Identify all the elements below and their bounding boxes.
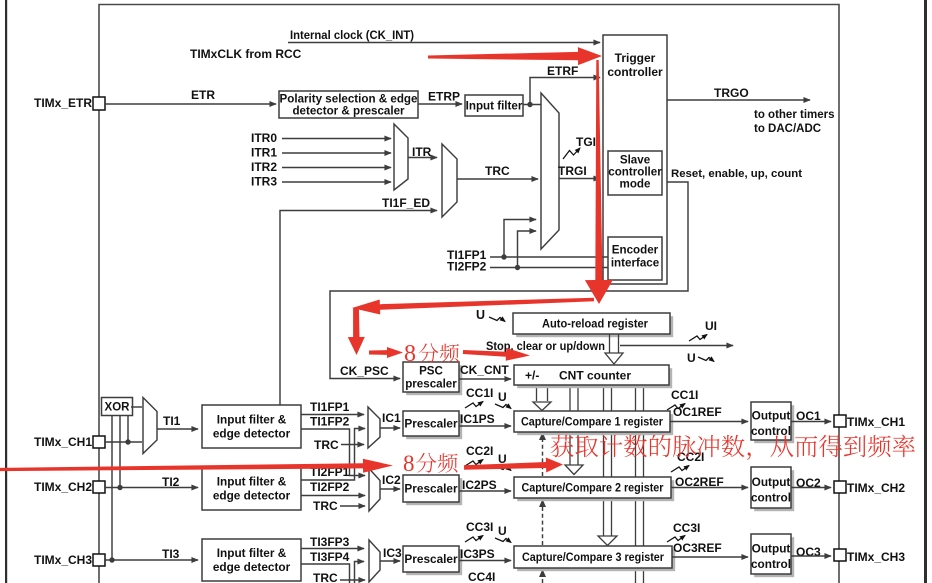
svg-text:TRC: TRC [313,571,338,583]
wire ETRP [418,103,462,105]
box input filter [465,95,523,116]
wire TRC ch1 [341,444,364,446]
svg-text:ITR2: ITR2 [251,160,277,174]
label TI1 [163,414,181,428]
red arrow down psc [348,308,365,355]
svg-text:edge detector: edge detector [213,427,291,441]
label TIMx_CH2 right [847,481,905,495]
svg-text:Output: Output [752,475,791,489]
page left border [5,0,7,583]
svg-text:Encoder: Encoder [612,244,659,257]
box input filter edge detector 3 [202,539,301,581]
label ITR3 [251,175,277,189]
svg-text:Capture/Compare 1 register: Capture/Compare 1 register [521,417,663,429]
label CC2I right [677,450,704,464]
box output control 3 [751,534,794,577]
wire xor line1 [111,415,113,560]
box capture compare 3 [514,546,675,571]
label TRGI [558,164,587,178]
label to DAC/ADC [754,123,821,135]
svg-text:IC3PS: IC3PS [460,547,495,561]
label IC1PS [460,412,495,426]
red text 8fenpin 2 [403,451,458,476]
label OC1 [796,409,821,423]
wire ETRF [530,78,600,105]
wire ITR1 [282,152,391,154]
label ITR1 [251,146,277,160]
label UI [705,319,717,333]
squiggle UI [689,335,707,342]
svg-text:XOR: XOR [105,402,131,414]
mux IC1 [368,407,380,448]
svg-text:CC4I: CC4I [468,570,495,583]
squiggle U right [698,357,714,362]
wire xor out [131,406,142,408]
wire TI2FP2 [301,495,365,497]
wire OC2 [791,487,831,489]
squiggle TGI [563,148,580,159]
wire xor line3 [127,415,129,442]
svg-text:Trigger: Trigger [615,51,656,65]
label TGI [576,135,596,149]
svg-text:TRC: TRC [313,499,338,513]
svg-text:CC3I: CC3I [673,521,700,535]
red text 8fenpin 1 [404,341,459,367]
label TI2FP2 trig [447,260,487,274]
red arrow left to psc [352,298,594,315]
label IC3PS [460,547,495,561]
svg-text:PSC: PSC [419,365,443,378]
wire TI2FP1 up [301,429,365,481]
bus pair1 CNT to CC2 [565,385,583,475]
label IC1 [382,411,401,425]
wire CH3 pin [105,559,198,561]
svg-text:TI2FP2: TI2FP2 [447,260,487,274]
wire CK_CNT [459,378,511,380]
pin TIMx_CH2 right [834,481,846,493]
wire OC2REF [671,487,748,489]
svg-text:CC1I: CC1I [466,386,493,400]
svg-text:TI3FP3: TI3FP3 [310,535,350,549]
label U cc1 [498,390,507,404]
svg-text:TI2: TI2 [162,475,180,489]
red arrow small right psc [369,347,403,358]
wire xor line2 [119,415,121,488]
red text huoqu [551,435,915,460]
svg-text:U: U [498,390,507,404]
label Internal clock (CK_INT) [290,28,414,42]
box auto-reload register [513,313,673,337]
wire filter to mux [523,104,541,106]
label U cc3 [498,524,507,538]
label ETRF [547,64,578,78]
svg-text:Capture/Compare 2 register: Capture/Compare 2 register [522,483,664,495]
label TIMx_CH1 left [34,435,92,449]
svg-text:Input filter &: Input filter & [217,413,287,427]
svg-text:TI1FP2: TI1FP2 [310,415,350,429]
label CC1I right [671,388,698,402]
label ITR2 [251,160,277,174]
hollow arrow AR to CNT [605,334,623,364]
label TI1F_ED [382,196,430,210]
svg-text:Input filter &: Input filter & [217,546,287,560]
label CNT counter [559,369,631,383]
box PSC prescaler [403,362,462,395]
red arrow to cc2 [464,458,563,473]
svg-text:TI3FP4: TI3FP4 [310,550,350,564]
svg-text:edge detector: edge detector [213,489,291,503]
junction filter out [527,102,532,107]
svg-text:ITR1: ITR1 [251,146,277,160]
svg-text:8: 8 [404,341,416,367]
bus pair3 CNT down [636,385,644,583]
mux TI1 select [143,398,157,454]
wire TI2FP2 to encoder [490,267,608,269]
wire ITR0 [282,138,391,140]
svg-text:Capture/Compare 3 register: Capture/Compare 3 register [522,552,664,564]
svg-text:OC3REF: OC3REF [673,541,722,555]
svg-text:IC3: IC3 [383,546,402,560]
junction xor ch2 [117,485,122,490]
label TI2 [162,475,180,489]
box prescaler 3 [403,546,462,575]
wire ITR2 [282,167,391,169]
svg-text:TRC: TRC [314,438,339,452]
box prescaler 1 [403,411,462,439]
label TI3FP3 [310,535,350,549]
label CK_PSC [340,364,389,378]
pin TIMx_CH1 right [834,415,846,427]
label TIMx_CH1 right [847,415,905,429]
svg-text:OC1REF: OC1REF [673,405,722,419]
pin TIMx_ETR [93,97,105,110]
wire TI3FP3 [301,548,364,550]
box slave controller mode [608,151,662,195]
svg-text:U: U [476,308,485,322]
mux trigger [541,93,559,249]
svg-text:control: control [751,557,791,571]
wire CH1 pin [105,441,142,443]
squiggle CC2I left [465,460,483,467]
box output control 1 [751,402,794,443]
diagram frame [99,5,839,583]
label TIMx_ETR [34,96,92,110]
svg-text:Auto-reload register: Auto-reload register [542,317,648,331]
red arrow down trigger [585,60,613,304]
box XOR [102,398,133,416]
svg-text:TIMx_CH3: TIMx_CH3 [847,550,905,564]
label TI3 [162,547,180,561]
wire TRC out [457,178,538,180]
label CC2I left [466,444,493,458]
svg-text:TI1: TI1 [163,414,181,428]
svg-text:ETRP: ETRP [428,90,460,104]
label CC4I [468,570,495,583]
squiggle CC3I right [667,536,685,543]
svg-text:CC3I: CC3I [466,520,493,534]
box input filter edge detector 1 [202,405,301,448]
label OC1REF [673,405,722,419]
svg-text:TIMx_ETR: TIMx_ETR [34,96,92,110]
svg-text:control: control [751,491,791,505]
mux IC3 [369,540,380,582]
svg-text:controller: controller [607,65,663,79]
wire OC1 [791,421,831,423]
svg-text:Prescaler: Prescaler [404,482,458,496]
label TIMx_CH2 left [34,480,92,494]
wire TI1F_ED [280,211,437,406]
squiggle U cc1 [495,404,511,409]
label CK_CNT [460,363,509,377]
svg-text:TRGI: TRGI [558,164,587,178]
label TI1FP2 [310,415,350,429]
pin TIMx_CH3 [93,554,105,566]
svg-text:TI3: TI3 [162,547,180,561]
svg-text:detector & prescaler: detector & prescaler [292,105,405,118]
box output control 2 [751,467,794,511]
label Reset enable up count [671,168,802,180]
wire TRGO [667,99,810,101]
wire IC3PS [459,560,511,562]
wire TI1FP1 to encoder [490,256,608,258]
svg-text:UI: UI [705,319,717,333]
label TI2FP2 [310,480,350,494]
label TI3FP4 [310,550,350,564]
label TIMx_CH3 left [34,553,92,567]
bus pair2 CNT to CC3 [598,385,617,546]
svg-text:ITR0: ITR0 [251,131,277,145]
red arrow to trigger controller [428,47,602,65]
label CC3I right [673,521,700,535]
wire CK_INT [288,42,600,44]
svg-text:Input filter &: Input filter & [217,475,287,489]
wire hook TI2FP2 [518,231,537,268]
svg-text:Prescaler: Prescaler [404,552,458,566]
squiggle CC1I left [465,402,483,409]
pin TIMx_CH1 [93,436,105,448]
svg-text:TIMx_CH1: TIMx_CH1 [847,415,905,429]
svg-text:Output: Output [752,409,791,423]
label TRC trig [485,164,510,178]
wire IC2 [380,488,400,490]
label U right [687,351,696,365]
svg-text:to other timers: to other timers [754,109,835,121]
label IC3 [383,546,402,560]
wire TRC ch3 [340,579,365,581]
squiggle CC2I right [671,466,689,473]
mux TRC [442,144,457,217]
junction TI2FP2 [515,265,520,270]
svg-text:+/-: +/- [525,369,539,383]
svg-text:TGI: TGI [576,135,596,149]
box prescaler 2 [403,475,462,505]
box trigger controller [603,35,667,284]
wire ETR [105,103,276,105]
wire stop clear [620,345,733,347]
junction xor ch1 [125,439,130,444]
wire IC3 [380,560,400,562]
svg-text:TIMx_CH1: TIMx_CH1 [34,435,92,449]
label TIMxCLK from RCC [190,47,302,61]
svg-text:TI2FP2: TI2FP2 [310,480,350,494]
svg-text:CNT counter: CNT counter [559,369,631,383]
svg-text:TRGO: TRGO [714,86,749,100]
svg-text:OC3: OC3 [796,545,821,559]
red arrow long ch2 [0,459,393,473]
label TI1FP1 trig [447,248,487,262]
wire reset path to CK_PSC [330,182,688,379]
label TI1FP1 [310,400,350,414]
svg-text:mode: mode [620,178,651,191]
junction TI1FP1 [501,254,506,259]
wire IC1 [380,427,400,429]
label TRC ch1 [314,438,339,452]
svg-text:edge detector: edge detector [213,560,291,574]
box CNT counter [514,365,672,388]
wire OC3REF [672,556,748,558]
svg-text:CK_PSC: CK_PSC [340,364,389,378]
squiggle U cc2 [495,466,511,471]
svg-text:8: 8 [403,451,415,476]
pin TIMx_CH2 [93,481,105,493]
label CC1I left [466,386,493,400]
svg-text:Stop, clear or up/down: Stop, clear or up/down [486,339,605,353]
wire OC1REF [670,421,748,423]
wire hook TI1FP1 [504,220,536,258]
label to other timers [754,109,835,121]
dashed capture line CC2 [539,499,546,545]
svg-text:U: U [498,524,507,538]
wire ITR3 [282,181,391,183]
svg-text:TIMx_CH2: TIMx_CH2 [847,481,905,495]
label ITR0 [251,131,277,145]
label IC2 [382,473,401,487]
wire CH2 pin [105,487,198,489]
box capture compare 2 [514,477,674,501]
svg-text:ITR3: ITR3 [251,175,277,189]
wire OC3 [791,555,831,557]
label Stop clear or up/down [486,339,605,353]
svg-text:Prescaler: Prescaler [404,417,458,431]
squiggle U autoreload [489,317,505,322]
wire ITR out [408,157,437,159]
label TRC ch3 [313,571,338,583]
box encoder interface [608,237,662,280]
squiggle CC1I right [667,404,685,411]
svg-text:interface: interface [611,257,660,270]
label ETR [191,88,215,102]
label OC2 [796,476,821,490]
svg-text:U: U [687,351,696,365]
svg-text:Internal clock (CK_INT): Internal clock (CK_INT) [290,28,414,42]
label U cc2 [498,452,507,466]
label +/- [525,369,539,383]
box capture compare 1 [514,411,673,435]
svg-text:Output: Output [752,542,791,556]
label TRGO [714,86,749,100]
page right border [924,0,927,583]
svg-text:TIMx_CH3: TIMx_CH3 [34,553,92,567]
dashed capture line CC3 [539,569,546,583]
svg-text:IC2: IC2 [382,473,401,487]
svg-text:Reset, enable, up, count: Reset, enable, up, count [671,168,802,180]
label U autoreload [476,308,485,322]
label OC2REF [675,475,724,489]
label TRC ch2 [313,499,338,513]
wire TI1FP1 [301,414,364,416]
mux IC2 [369,469,380,512]
hollow arrow CNT to CC1 [533,385,551,411]
pin TIMx_CH3 right [834,549,846,561]
wire TI4 up [355,562,365,583]
svg-text:to DAC/ADC: to DAC/ADC [754,123,821,135]
dashed capture line CC1 [539,432,546,476]
svg-text:IC1: IC1 [382,411,401,425]
wire IC2PS [459,490,511,492]
svg-text:ETR: ETR [191,88,215,102]
wire TI1 [157,428,198,430]
svg-text:ETRF: ETRF [547,64,578,78]
squiggle U cc3 [495,538,511,543]
svg-text:TI1F_ED: TI1F_ED [382,196,430,210]
label OC3 [796,545,821,559]
red arrow to cnt [463,348,530,361]
squiggle CC3I left [465,536,483,543]
label IC2PS [462,478,497,492]
box polarity selection [279,91,418,118]
svg-text:Input filter: Input filter [466,100,523,113]
svg-text:TIMxCLK from RCC: TIMxCLK from RCC [190,47,302,61]
wire TI3FP4 down [301,564,350,583]
svg-text:IC2PS: IC2PS [462,478,497,492]
mux ITR [394,124,408,190]
svg-text:TI1FP1: TI1FP1 [310,400,350,414]
svg-text:CC1I: CC1I [671,388,698,402]
svg-text:CK_CNT: CK_CNT [460,363,509,377]
label TI2FP1 [310,465,350,479]
label ETRP [428,90,460,104]
svg-text:IC1PS: IC1PS [460,412,495,426]
label CC3I left [466,520,493,534]
wire TI1FP2 down [301,429,365,476]
svg-text:CC2I: CC2I [466,444,493,458]
label OC3REF [673,541,722,555]
svg-text:prescaler: prescaler [405,378,457,391]
label ITR [412,145,432,159]
label Trigger controller [607,51,663,79]
wire IC1PS [459,425,511,427]
junction xor ch3 [109,557,114,562]
wire TRGI [559,178,600,180]
wire TRC ch2 [340,505,365,507]
svg-text:TIMx_CH2: TIMx_CH2 [34,480,92,494]
box input filter edge detector 2 [202,467,301,510]
svg-text:TRC: TRC [485,164,510,178]
label TIMx_CH3 right [847,550,905,564]
